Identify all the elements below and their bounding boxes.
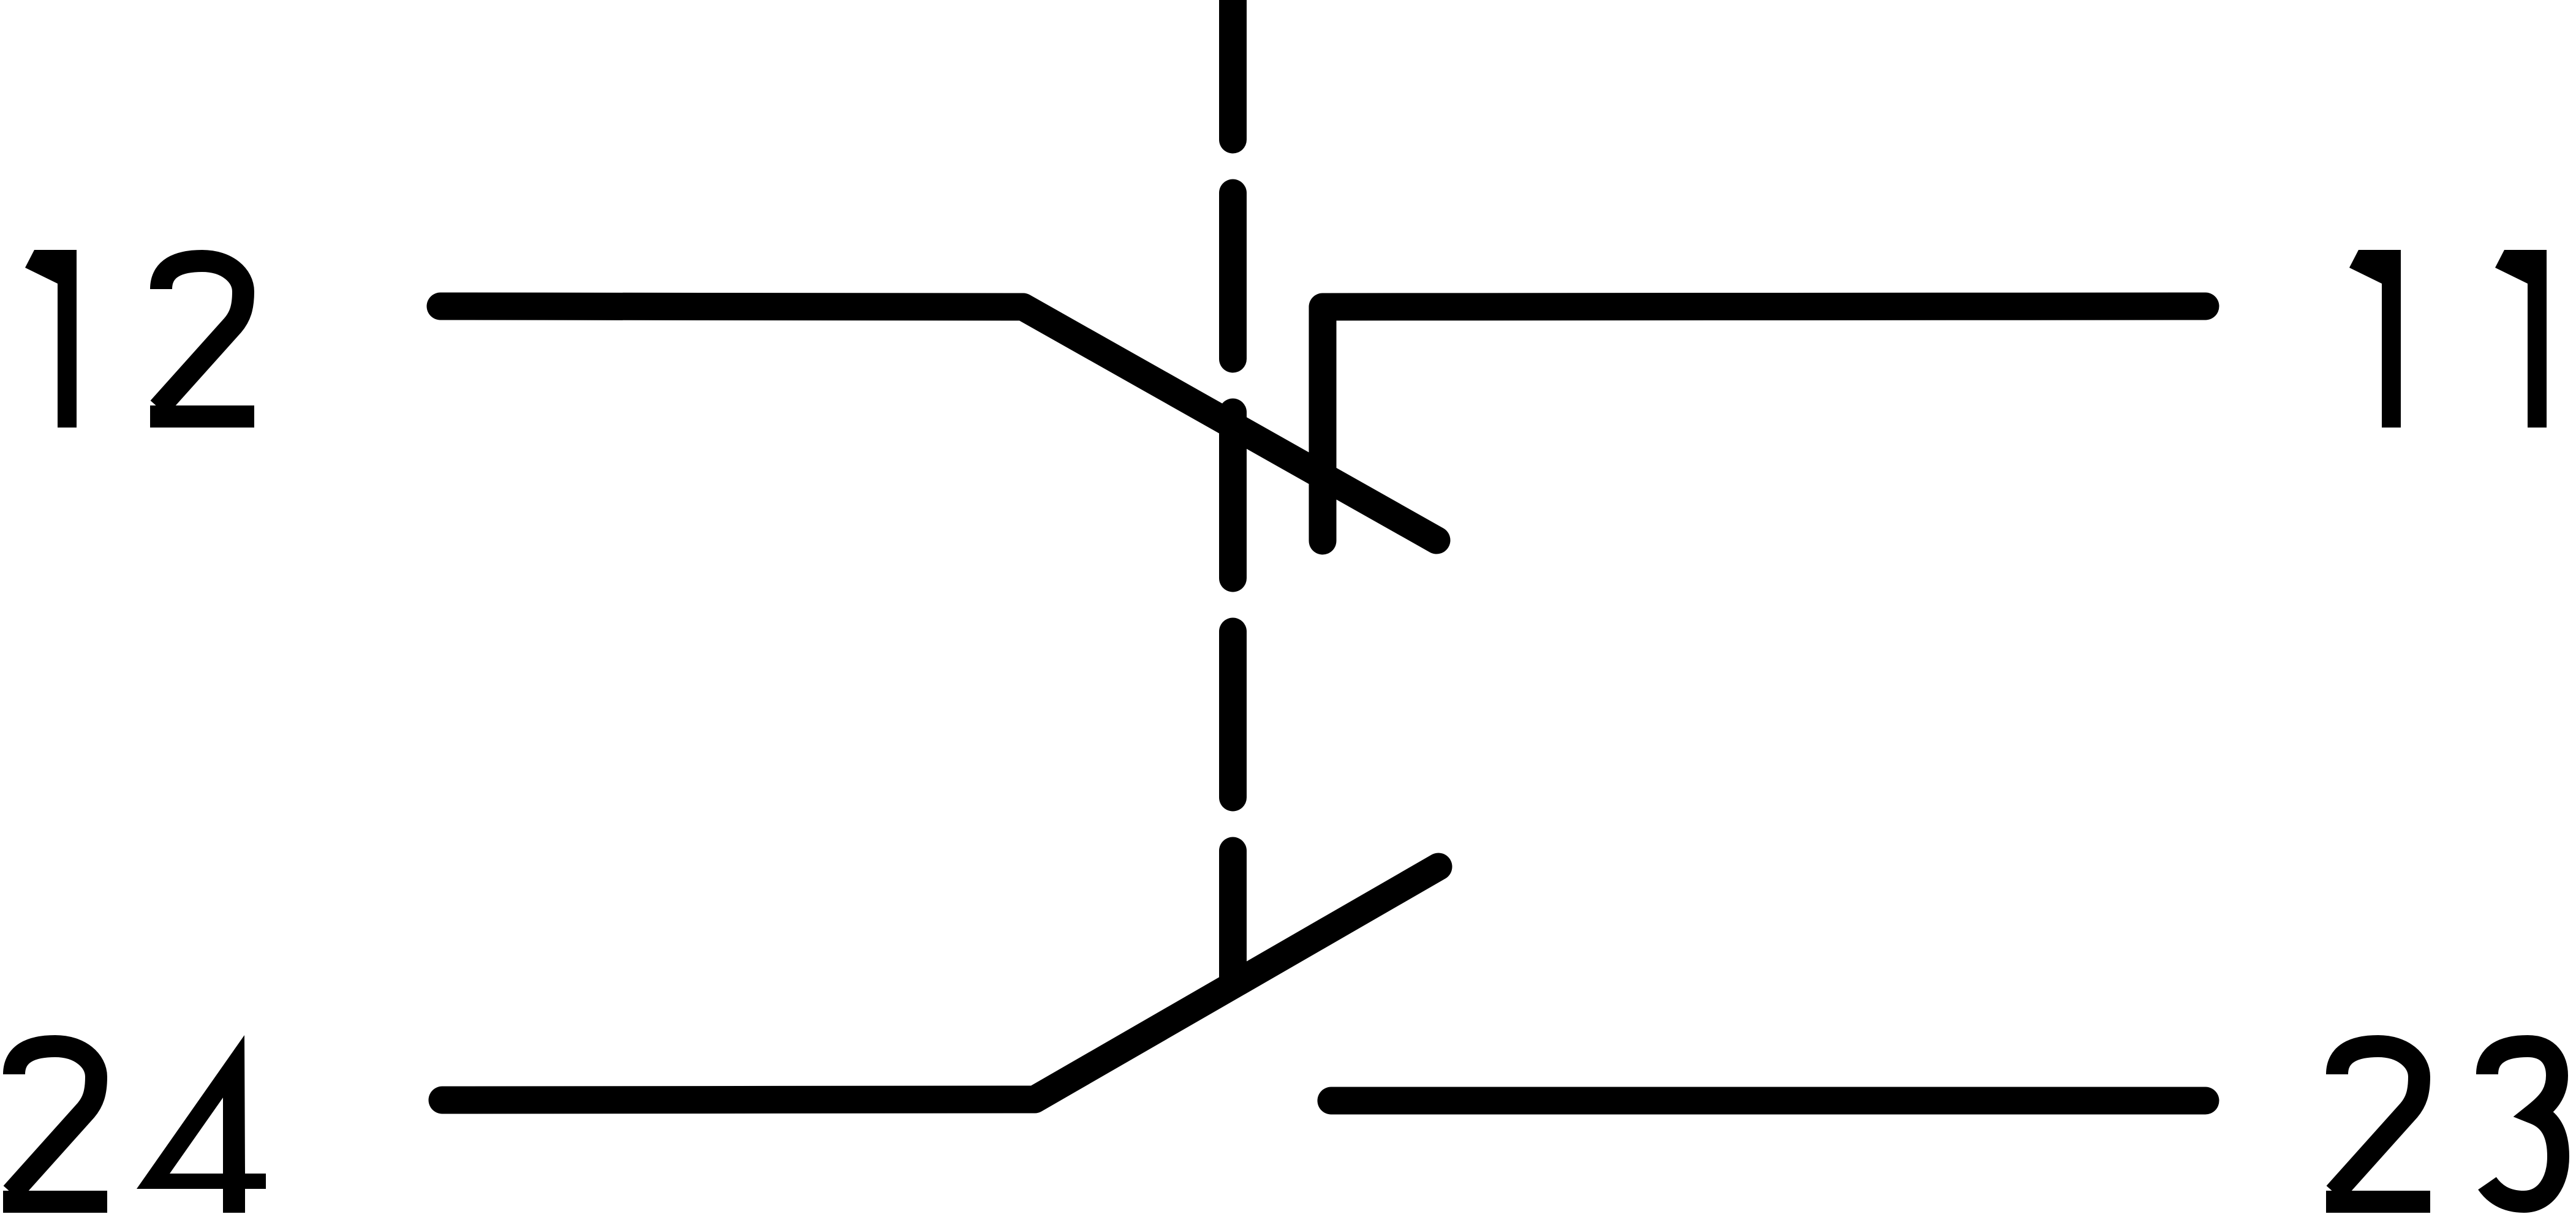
wire: NO moving contact arm from terminal 24 [442,867,1438,1100]
node 12: NC terminal label "12" [25,250,254,428]
wire: NC moving contact arm from terminal 12 [440,306,1437,540]
node 24: NO terminal label "24" [3,1035,266,1213]
wire: NO fixed wire to terminal 23 [1331,1087,2205,1115]
node 11: NC terminal label "11" [2349,250,2547,428]
wire: dashed actuator linkage line [1219,0,1247,985]
wire: NC fixed contact bar and wire to terminal 11 [1323,306,2205,541]
node 23: NO terminal label "23" [2326,1046,2558,1202]
